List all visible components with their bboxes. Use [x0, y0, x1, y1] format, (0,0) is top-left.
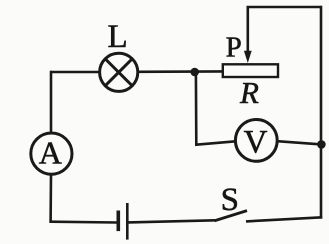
- svg-text:L: L: [108, 19, 128, 55]
- svg-text:R: R: [239, 75, 259, 110]
- lamp L (circle with X): [100, 53, 138, 91]
- voltmeter V: [235, 119, 277, 161]
- slider P arrowhead: [244, 51, 252, 63]
- wire: lamp to rheostat (through junction): [138, 70, 223, 73]
- junction node at lamp/rheostat/voltmeter branch: [190, 68, 199, 77]
- switch S blade (open): [215, 211, 247, 221]
- wire: switch contact to bottom-right corner: [246, 217, 322, 221]
- svg-text:V: V: [244, 124, 268, 160]
- wire: left vertical from top corner down to ammeter: [50, 71, 53, 134]
- svg-text:S: S: [221, 182, 239, 218]
- wire: bottom left from corner to battery: [51, 220, 117, 223]
- wire: top from slider to right corner: [247, 6, 322, 9]
- slider P arrow stem: [247, 7, 250, 53]
- wire: ammeter down to bottom corner: [49, 174, 52, 223]
- svg-text:P: P: [226, 32, 242, 64]
- ammeter A: [31, 133, 72, 174]
- battery negative plate (short thick): [117, 211, 121, 232]
- battery positive plate (long thin): [126, 203, 129, 240]
- svg-text:A: A: [39, 134, 62, 170]
- wire: voltmeter to right wire: [277, 141, 321, 144]
- wire: battery to switch pivot: [128, 220, 215, 222]
- wire: junction down to voltmeter corner then right to voltmeter: [196, 72, 236, 145]
- wire: right vertical: [320, 6, 323, 219]
- rheostat R body: [223, 64, 278, 77]
- junction node on right wire at voltmeter output: [317, 140, 326, 149]
- wire: top-left horizontal from corner to lamp: [51, 71, 101, 74]
